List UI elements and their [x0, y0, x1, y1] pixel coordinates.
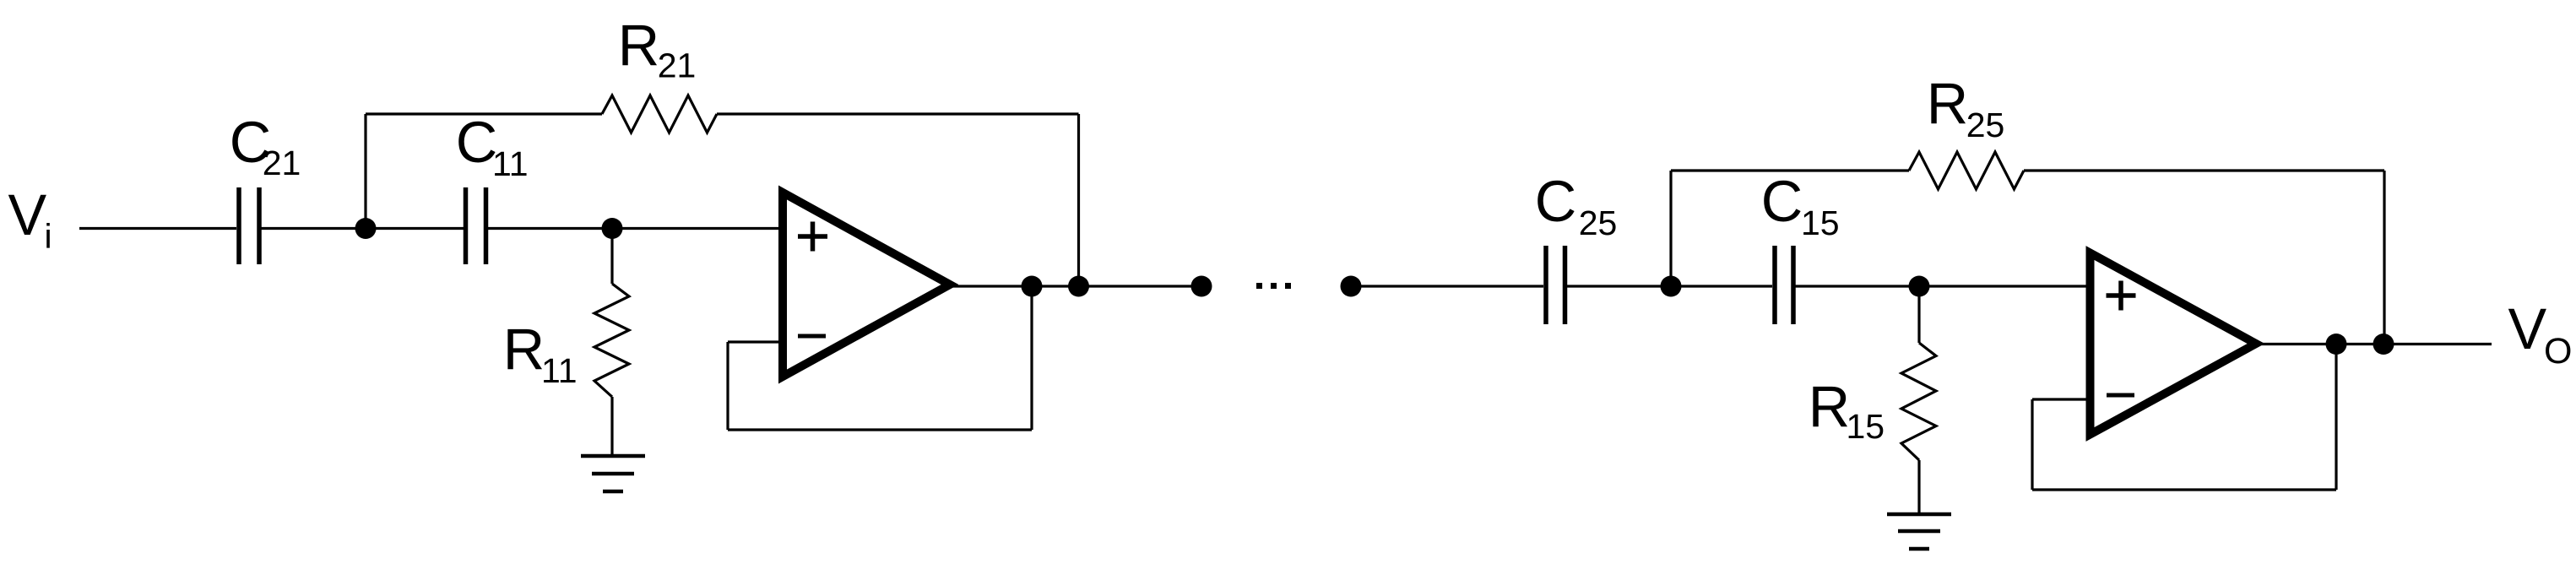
op-amp U1 plus pin mark — [798, 222, 827, 252]
node R25 output junction dot — [2373, 334, 2394, 355]
svg-text:i: i — [45, 217, 52, 256]
svg-text:C: C — [1535, 169, 1576, 234]
wire R11 to ground — [610, 397, 613, 456]
wire C25 to C15 through node C — [1567, 285, 1772, 287]
wire U1 feedback left up — [726, 342, 729, 430]
wire R15 to ground — [1917, 460, 1920, 514]
svg-text:R: R — [1927, 71, 1968, 136]
ellipsis continuation dots — [1256, 283, 1291, 289]
label C11 — [456, 110, 529, 183]
wire Vi to C21 — [79, 227, 236, 230]
svg-text:25: 25 — [1966, 106, 2005, 144]
svg-text:11: 11 — [541, 351, 578, 390]
wire R25 right segment — [2024, 169, 2384, 171]
wire U1 output — [952, 285, 1201, 287]
wire C21 to C11 through node A — [262, 227, 464, 230]
capacitor C15 — [1775, 246, 1793, 324]
wire R21 down to output net — [1077, 114, 1080, 286]
svg-text:11: 11 — [492, 144, 529, 183]
node stage5 input start dot — [1341, 276, 1362, 297]
wire node B down to R11 — [610, 229, 613, 285]
wire U5 output — [2259, 343, 2492, 345]
svg-text:C: C — [1761, 169, 1803, 234]
svg-text:R: R — [1809, 374, 1850, 439]
node B junction dot — [602, 218, 623, 239]
label R15 — [1809, 374, 1885, 446]
svg-text:C: C — [456, 110, 497, 175]
node stage1 output end dot — [1191, 276, 1212, 297]
label R25 — [1927, 71, 2005, 144]
capacitor C21 — [239, 187, 259, 264]
resistor R25 — [1909, 152, 2024, 189]
node Vi label — [8, 182, 52, 256]
node A junction dot — [355, 218, 377, 239]
svg-text:O: O — [2544, 331, 2572, 372]
label C21 — [230, 110, 301, 182]
svg-text:R: R — [503, 317, 545, 382]
svg-text:15: 15 — [1801, 203, 1840, 242]
resistor R21 — [602, 95, 717, 133]
resistor R15 — [1901, 343, 1936, 460]
svg-text:21: 21 — [263, 144, 301, 182]
wire U1 feedback bottom — [728, 428, 1032, 431]
svg-text:R: R — [618, 13, 659, 78]
node Vo label — [2508, 296, 2573, 372]
capacitor C25 — [1546, 246, 1565, 324]
wire R25 down to output net — [2383, 171, 2385, 344]
op-amp U1 minus pin mark — [798, 334, 826, 339]
node U5 feedback junction dot — [2326, 334, 2347, 355]
wire node C up to R25 — [1669, 171, 1672, 286]
op-amp U5 minus pin mark — [2107, 393, 2134, 398]
wire U1 feedback to minus input — [728, 340, 785, 343]
label R21 — [618, 13, 697, 85]
wire C11 to op-amp U1 plus input through node B — [488, 227, 785, 230]
node D junction dot — [1909, 276, 1930, 297]
ground for R15 — [1887, 514, 1951, 549]
node R21 output junction dot — [1068, 276, 1089, 297]
svg-text:V: V — [2508, 296, 2547, 361]
label C15 — [1761, 169, 1840, 242]
wire U1 output down to feedback — [1030, 286, 1033, 430]
wire U5 feedback bottom — [2032, 488, 2336, 491]
wire R21 left segment — [366, 112, 602, 115]
wire stage5 input to C25 — [1351, 285, 1543, 287]
capacitor C11 — [466, 187, 486, 264]
svg-text:15: 15 — [1847, 407, 1885, 446]
node C junction dot — [1661, 276, 1682, 297]
wire R25 left segment — [1671, 169, 1909, 171]
label C25 — [1535, 169, 1618, 242]
op-amp U1 — [783, 193, 950, 377]
wire node D down to R15 — [1917, 286, 1920, 343]
wire node A up to R21 — [364, 114, 366, 229]
op-amp U5 — [2091, 253, 2257, 435]
resistor R11 — [594, 284, 629, 397]
wire U5 output down to feedback — [2335, 344, 2337, 491]
label R11 — [503, 317, 578, 390]
wire C15 to op-amp U5 plus input through node D — [1796, 285, 2095, 287]
ground for R11 — [581, 456, 645, 491]
op-amp U5 plus pin mark — [2107, 281, 2136, 311]
wire U5 feedback left up — [2031, 399, 2033, 490]
svg-text:21: 21 — [658, 46, 697, 85]
wire R21 right segment — [717, 112, 1079, 115]
svg-text:V: V — [8, 182, 47, 247]
svg-text:25: 25 — [1579, 203, 1618, 242]
node U1 feedback junction dot — [1022, 276, 1043, 297]
wire U5 feedback to minus input — [2032, 398, 2094, 400]
